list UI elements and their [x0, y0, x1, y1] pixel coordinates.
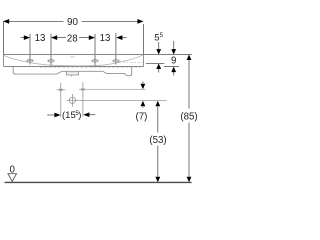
svg-text:(85): (85) [180, 111, 197, 122]
svg-text:9: 9 [171, 55, 176, 66]
svg-text:0: 0 [10, 164, 16, 175]
svg-text:13: 13 [100, 33, 111, 44]
svg-text:13: 13 [35, 33, 46, 44]
svg-text:(7): (7) [135, 111, 147, 122]
svg-text:90: 90 [67, 17, 78, 28]
svg-text:28: 28 [67, 33, 78, 44]
svg-text:(53): (53) [149, 135, 166, 146]
svg-text:(15: (15 [62, 110, 76, 121]
svg-text:): ) [78, 110, 81, 121]
